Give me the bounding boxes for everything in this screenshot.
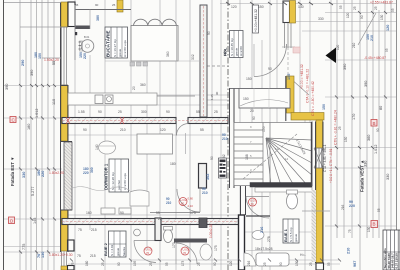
- svg-text:90: 90: [98, 110, 102, 114]
- svg-text:25: 25: [149, 262, 153, 266]
- svg-text:150: 150: [322, 104, 326, 110]
- svg-text:1.25: 1.25: [210, 94, 214, 100]
- svg-text:175: 175: [214, 245, 218, 251]
- svg-text:CTA = -0.10 = +481.22: CTA = -0.10 = +481.22: [306, 69, 310, 103]
- svg-text:170: 170: [352, 114, 356, 120]
- svg-text:120: 120: [229, 260, 233, 266]
- right wall inner dark line: [312, 122, 323, 264]
- north triangle: [326, 48, 337, 64]
- svg-text:330: 330: [22, 172, 26, 178]
- wall between stair and bath1 x240-246: [241, 186, 246, 270]
- svg-text:+2.55=+483.87: +2.55=+483.87: [370, 1, 393, 5]
- right wall inner hatch strip: [312, 190, 317, 262]
- svg-text:Fatada EST ▼: Fatada EST ▼: [10, 157, 15, 186]
- svg-text:360: 360: [166, 51, 170, 57]
- svg-text:55: 55: [156, 211, 160, 215]
- svg-text:25: 25: [263, 262, 267, 266]
- svg-text:188: 188: [245, 154, 249, 160]
- left wall window (top): [60, 27, 68, 85]
- red diagonal annotations near entry: [300, 64, 315, 116]
- svg-text:1.00x2.20: 1.00x2.20: [209, 224, 213, 238]
- svg-text:215: 215: [90, 254, 96, 258]
- svg-text:2.10: 2.10: [188, 204, 194, 208]
- svg-text:90: 90: [215, 91, 219, 95]
- svg-text:130: 130: [295, 260, 299, 266]
- svg-text:CTA + 4.81 + 481.1: CTA + 4.81 + 481.1: [323, 144, 327, 172]
- svg-text:1.012: 1.012: [35, 108, 39, 118]
- red grid marker boxes: [9, 117, 378, 228]
- top-right yellow wall: [290, 1, 296, 24]
- svg-text:BUCĂTĂRIE: BUCĂTĂRIE: [105, 31, 111, 58]
- svg-text:145: 145: [33, 218, 37, 224]
- svg-text:330: 330: [364, 161, 368, 167]
- svg-text:160: 160: [86, 211, 92, 215]
- svg-text:+0.00=+481.32: +0.00=+481.32: [254, 9, 258, 32]
- svg-text:120: 120: [336, 44, 340, 50]
- svg-text:gresie: gresie: [116, 247, 120, 256]
- svg-text:173: 173: [172, 242, 176, 248]
- stair left wall: [230, 88, 235, 188]
- svg-text:CTN = -0.80 = +480.42: CTN = -0.80 = +480.42: [311, 81, 315, 116]
- frame right border: [396, 0, 398, 242]
- top-right entry pier white: [283, 1, 290, 23]
- dormitor wardrobe: [137, 134, 173, 154]
- hall door arc: [176, 243, 197, 264]
- svg-text:215: 215: [91, 228, 97, 232]
- small top yellow pier x118: [117, 0, 123, 12]
- svg-text:25: 25: [353, 6, 357, 10]
- entry door gap jambs: [285, 23, 292, 48]
- svg-text:290: 290: [21, 60, 25, 66]
- svg-text:25: 25: [101, 262, 105, 266]
- svg-text:20: 20: [132, 86, 136, 90]
- svg-text:25: 25: [112, 3, 116, 7]
- dormitor wall pier: [199, 164, 207, 189]
- left wall lower window: [62, 251, 67, 266]
- svg-text:90: 90: [268, 67, 272, 71]
- diagonal leader top right: [358, 13, 376, 45]
- svg-text:25: 25: [309, 262, 313, 266]
- svg-text:110: 110: [52, 99, 56, 105]
- svg-text:gresie: gresie: [235, 47, 239, 56]
- svg-text:90: 90: [252, 116, 256, 120]
- svg-text:302: 302: [206, 174, 210, 180]
- bottom dimension number row: [71, 260, 331, 266]
- red wall ticks: [66, 117, 124, 225]
- svg-text:90: 90: [120, 211, 124, 215]
- svg-text:302: 302: [191, 54, 195, 60]
- svg-text:380: 380: [96, 15, 100, 21]
- svg-text:12: 12: [275, 147, 279, 151]
- svg-text:216: 216: [260, 227, 264, 233]
- wall below stair: [250, 183, 312, 188]
- svg-text:210: 210: [202, 191, 208, 195]
- cooktop arcs: [134, 19, 148, 25]
- svg-text:+0.0 A +1 L CTN + -0.81: +0.0 A +1 L CTN + -0.81: [329, 148, 333, 183]
- svg-text:BAIE 2: BAIE 2: [103, 242, 108, 256]
- svg-text:55: 55: [327, 262, 331, 266]
- svg-text:25: 25: [197, 262, 201, 266]
- svg-text:55: 55: [196, 110, 200, 114]
- svg-text:216: 216: [341, 204, 345, 210]
- kitchen counter: [131, 26, 178, 62]
- svg-text:120: 120: [160, 128, 166, 132]
- BAIE 2 room table: [103, 231, 126, 257]
- bath1 shower: [256, 253, 289, 266]
- svg-text:HOL: HOL: [223, 49, 227, 56]
- entry sill line: [282, 46, 295, 48]
- DORMITOR 1 room table: [104, 159, 129, 192]
- svg-text:360: 360: [140, 83, 146, 87]
- hall wall column x200-207: [200, 5, 207, 117]
- left wall hatched pier (middle): [64, 142, 72, 210]
- svg-text:210: 210: [222, 137, 228, 141]
- svg-text:278: 278: [267, 236, 271, 242]
- upper stair landing rect: [239, 89, 290, 109]
- svg-text:173: 173: [181, 260, 185, 266]
- svg-text:390: 390: [343, 64, 347, 70]
- svg-text:faianta: faianta: [122, 247, 126, 256]
- svg-text:220: 220: [83, 171, 89, 175]
- HOL room table: [223, 31, 244, 58]
- boiler circle: [81, 40, 94, 53]
- svg-text:195: 195: [133, 260, 137, 266]
- svg-text:90: 90: [207, 31, 211, 35]
- hall-baie2 wall stub: [174, 239, 207, 243]
- svg-text:70: 70: [146, 251, 150, 255]
- svg-text:80: 80: [379, 106, 383, 110]
- main horizontal wall y117-123 hatched: [62, 118, 176, 124]
- dimension tick marks right margin: [335, 11, 387, 228]
- bottom ticks: [70, 259, 341, 262]
- upper-left margin extra lines: [4, 3, 61, 59]
- hall dashed ceiling line: [207, 65, 229, 67]
- section cut dashed line: [227, 0, 229, 270]
- svg-text:75: 75: [78, 228, 82, 232]
- svg-text:S = 4.02: S = 4.02: [110, 244, 114, 256]
- svg-text:130: 130: [41, 252, 45, 258]
- dimension tick marks left margin: [19, 84, 56, 254]
- stair right wall dark: [311, 122, 313, 186]
- svg-text:150: 150: [258, 5, 264, 9]
- svg-text:130: 130: [380, 14, 384, 20]
- svg-text:90: 90: [83, 128, 87, 132]
- svg-text:210: 210: [347, 248, 351, 254]
- svg-text:25: 25: [338, 126, 342, 130]
- svg-text:S = 16.37 mp: S = 16.37 mp: [113, 39, 117, 57]
- svg-text:180: 180: [27, 124, 31, 130]
- svg-text:150: 150: [246, 77, 252, 81]
- hall mid yellow wall x289: [287, 76, 295, 113]
- svg-text:55: 55: [75, 3, 79, 7]
- svg-text:B.01: B.01: [84, 35, 90, 39]
- svg-text:220: 220: [349, 204, 355, 208]
- svg-text:220: 220: [83, 53, 87, 59]
- svg-text:S = 5.5 mp: S = 5.5 mp: [289, 227, 293, 242]
- entry door swing: [254, 44, 287, 77]
- svg-text:18x17.5x28: 18x17.5x28: [255, 247, 273, 251]
- svg-text:-0.45=+480.87: -0.45=+480.87: [364, 56, 386, 60]
- dimension tick marks top: [226, 2, 333, 5]
- pink marker: [293, 47, 300, 53]
- door in main wall: [177, 124, 189, 136]
- svg-text:5.277: 5.277: [31, 186, 35, 196]
- svg-text:90: 90: [95, 3, 99, 7]
- svg-text:20: 20: [250, 109, 254, 113]
- svg-text:75: 75: [77, 254, 81, 258]
- svg-text:216: 216: [247, 260, 251, 266]
- svg-text:220: 220: [41, 171, 45, 177]
- svg-text:180: 180: [170, 162, 176, 166]
- svg-text:1.012: 1.012: [374, 144, 378, 154]
- baie2 fixtures: [199, 218, 207, 228]
- svg-text:330: 330: [318, 17, 324, 21]
- svg-text:70: 70: [251, 202, 255, 206]
- svg-text:B: B: [373, 222, 376, 227]
- svg-text:55: 55: [391, 8, 395, 12]
- svg-text:390: 390: [364, 81, 368, 87]
- svg-text:70: 70: [183, 251, 187, 255]
- svg-text:25: 25: [118, 110, 122, 114]
- svg-text:987: 987: [353, 261, 357, 267]
- svg-text:+0.00 = +481.32: +0.00 = +481.32: [300, 64, 304, 89]
- top wall line kitchen: [75, 9, 131, 11]
- svg-text:1.80x2.20: 1.80x2.20: [49, 171, 64, 175]
- svg-text:90: 90: [213, 262, 217, 266]
- dormitor bed bottom left: [130, 190, 149, 206]
- svg-text:1.50x2.20: 1.50x2.20: [44, 58, 59, 62]
- left wall dark edges: [61, 2, 73, 252]
- svg-text:300: 300: [90, 167, 94, 173]
- interior grid thin verticals: [75, 0, 331, 270]
- svg-text:H=2.80: H=2.80: [239, 46, 243, 56]
- radiator marks: [101, 208, 131, 214]
- svg-text:BAIE 1: BAIE 1: [283, 228, 288, 242]
- svg-text:55: 55: [377, 208, 381, 212]
- kitchen lower cabinet band: [68, 93, 157, 105]
- svg-text:130: 130: [367, 226, 371, 232]
- svg-text:90: 90: [166, 110, 170, 114]
- svg-text:25: 25: [158, 217, 162, 221]
- svg-text:90: 90: [117, 262, 121, 266]
- svg-text:120: 120: [346, 12, 350, 18]
- svg-text:95: 95: [385, 48, 389, 52]
- svg-text:210: 210: [120, 128, 126, 132]
- BUCATARIE room table: [105, 27, 128, 58]
- svg-text:0.80: 0.80: [188, 197, 194, 201]
- staircase: [234, 123, 312, 186]
- svg-text:90: 90: [376, 128, 380, 132]
- svg-text:173: 173: [190, 211, 196, 215]
- svg-text:25: 25: [374, 6, 378, 10]
- hall tiny rotated notes: [75, 3, 219, 100]
- bath1 door swing: [246, 197, 269, 219]
- svg-text:300: 300: [141, 110, 147, 114]
- extra wall/fixture lines: [246, 215, 270, 217]
- top-left white pier next to yellow: [68, 2, 75, 27]
- svg-text:25: 25: [214, 110, 218, 114]
- baie2 toilet: [164, 230, 173, 243]
- svg-text:S = 10.45 mp: S = 10.45 mp: [230, 38, 234, 56]
- BAIE 1 room table: [283, 219, 299, 243]
- svg-text:100: 100: [262, 126, 266, 132]
- white pier with black border bottom center: [239, 215, 245, 270]
- window tag barcode: [219, 158, 227, 178]
- bath horizontal wall y218-224 hatched: [62, 219, 240, 225]
- svg-text:390: 390: [5, 84, 9, 90]
- svg-text:55: 55: [339, 5, 343, 9]
- yellow horizontal band: [291, 113, 324, 121]
- svg-text:CTN + -0.81 = +480.24: CTN + -0.81 = +480.24: [334, 110, 338, 145]
- bath1 sink: [252, 231, 264, 240]
- left wall lower piers: [68, 240, 75, 251]
- baie2 pier: [155, 218, 161, 241]
- svg-text:390: 390: [30, 70, 34, 76]
- svg-text:360: 360: [367, 135, 371, 141]
- svg-text:gresie: gresie: [118, 48, 122, 57]
- baie2 door swing: [134, 241, 156, 263]
- svg-text:210: 210: [166, 201, 172, 205]
- svg-text:330: 330: [386, 174, 390, 180]
- frame left border: [3, 0, 5, 270]
- title block bottom right (rotated): [383, 230, 400, 270]
- dark rotated margin numbers: [5, 61, 390, 250]
- svg-text:140: 140: [95, 144, 99, 150]
- svg-text:120: 120: [231, 5, 237, 9]
- extra right-top tiny labels: [336, 5, 395, 233]
- svg-text:0.37 210.50: 0.37 210.50: [394, 253, 398, 269]
- svg-text:B: B: [373, 121, 376, 126]
- svg-text:130: 130: [298, 5, 304, 9]
- svg-text:150: 150: [38, 53, 42, 59]
- svg-text:150: 150: [344, 136, 348, 142]
- svg-text:gresie: gresie: [294, 233, 298, 242]
- svg-text:120: 120: [386, 25, 390, 31]
- svg-text:150: 150: [243, 97, 249, 101]
- top-left wall stub: [75, 26, 90, 30]
- svg-text:75: 75: [348, 229, 352, 233]
- right margin dimension lines: [337, 0, 391, 270]
- svg-text:210: 210: [370, 35, 374, 41]
- svg-text:14: 14: [285, 157, 289, 161]
- svg-text:80: 80: [181, 202, 185, 206]
- right exterior wall yellow segments: [316, 120, 323, 148]
- svg-text:155: 155: [287, 74, 291, 80]
- svg-text:90: 90: [210, 156, 214, 160]
- svg-text:210: 210: [352, 42, 356, 48]
- svg-text:1.80x1.20+0.30: 1.80x1.20+0.30: [49, 253, 73, 257]
- right wall window: [314, 148, 323, 168]
- left margin dimension lines: [20, 0, 54, 270]
- stair walking line: [243, 134, 297, 179]
- blue dimension texts: [34, 34, 374, 208]
- scattered small gray dimension texts: [77, 5, 324, 258]
- dormitor door swing: [177, 189, 200, 212]
- svg-text:parchet: parchet: [117, 180, 121, 190]
- elevation label box rotated: [253, 5, 259, 33]
- dormitor armchair: [99, 141, 116, 154]
- svg-text:90: 90: [360, 15, 364, 19]
- svg-text:55: 55: [200, 128, 204, 132]
- svg-text:160: 160: [85, 260, 89, 266]
- left exterior wall yellow segments: [61, 2, 68, 270]
- svg-text:DORMITOR 1: DORMITOR 1: [104, 163, 109, 190]
- red circle door tags: [144, 198, 257, 256]
- bath1 toilet: [287, 193, 298, 209]
- svg-text:75: 75: [71, 262, 75, 266]
- svg-text:90: 90: [279, 262, 283, 266]
- svg-text:775: 775: [22, 244, 26, 250]
- svg-text:H=2.80 vops: H=2.80 vops: [123, 40, 127, 57]
- leader to elevation notes: [290, 78, 309, 95]
- svg-text:55: 55: [165, 262, 169, 266]
- svg-text:H=..: H=..: [300, 253, 306, 257]
- svg-text:1.55: 1.55: [78, 110, 85, 114]
